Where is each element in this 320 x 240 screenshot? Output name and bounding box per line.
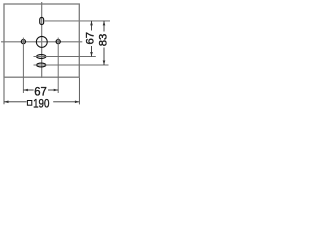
slot 2 xyxy=(37,63,46,67)
arrow down 83 right xyxy=(103,61,106,66)
left hole vertical extension xyxy=(22,38,24,93)
dimension line 67 right xyxy=(91,21,93,57)
arrow right 67 bottom xyxy=(54,89,59,92)
horizontal center line xyxy=(1,41,82,43)
svg-text:67: 67 xyxy=(85,32,97,45)
arrow up 83 right xyxy=(103,21,106,26)
left hole xyxy=(21,40,25,44)
center circle xyxy=(36,36,47,47)
right hole vertical extension xyxy=(57,38,59,93)
top slot xyxy=(40,17,44,24)
slot 1 extension line xyxy=(34,56,96,58)
plate right edge extension xyxy=(78,78,80,105)
plate left edge extension xyxy=(3,78,5,104)
vertical center line xyxy=(41,2,43,78)
bottom dimension 190 line xyxy=(4,101,79,103)
arrow down 67 right xyxy=(90,52,93,57)
svg-text:83: 83 xyxy=(98,34,110,47)
arrow left 190 xyxy=(4,101,9,104)
slot 2 extension line xyxy=(34,64,109,66)
dimension line 83 right xyxy=(103,21,105,65)
arrow up 67 right xyxy=(90,21,93,26)
slot 1 xyxy=(37,55,46,59)
top slot extension line xyxy=(44,20,110,22)
square symbol xyxy=(27,101,31,106)
bottom dimension 67 line xyxy=(23,89,58,91)
plate outline xyxy=(4,4,79,77)
right hole xyxy=(56,40,60,44)
arrow right 190 xyxy=(75,101,80,104)
arrow left 67 bottom xyxy=(23,89,28,92)
svg-text:190: 190 xyxy=(33,96,50,110)
